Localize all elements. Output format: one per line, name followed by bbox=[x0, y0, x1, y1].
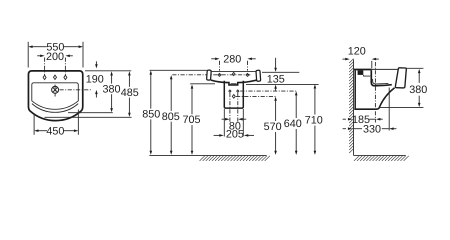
rim top thick bbox=[354, 69, 372, 71]
dim 570 bbox=[264, 97, 282, 155]
drain hole bbox=[52, 86, 59, 93]
dim 135 bbox=[262, 58, 299, 91]
dim 280 bbox=[211, 54, 255, 71]
centerline vertical bbox=[374, 62, 376, 123]
ext line 705 left bbox=[190, 83, 215, 85]
ext 330 right bbox=[388, 88, 390, 131]
svg-text:330: 330 bbox=[363, 123, 381, 135]
ext line 380 bottom bbox=[68, 112, 113, 114]
svg-text:190: 190 bbox=[86, 74, 104, 86]
bowl inner surface thin bbox=[373, 79, 389, 84]
svg-text:200: 200 bbox=[46, 51, 64, 63]
floor line right bbox=[354, 154, 406, 156]
dim 380 left view bbox=[102, 71, 120, 112]
svg-text:205: 205 bbox=[226, 128, 244, 140]
dim 705 bbox=[182, 84, 200, 154]
box fixing hole left bbox=[229, 90, 231, 92]
svg-text:120: 120 bbox=[348, 46, 366, 58]
svg-text:380: 380 bbox=[102, 83, 120, 95]
box hole extension right bbox=[237, 93, 239, 122]
dim 710 bbox=[305, 84, 323, 155]
svg-text:705: 705 bbox=[182, 114, 200, 126]
svg-text:380: 380 bbox=[409, 84, 427, 96]
floor hatch right bbox=[354, 156, 409, 161]
tap hole center bbox=[54, 75, 57, 79]
dim 185 bbox=[343, 114, 383, 126]
bar top edge bbox=[211, 71, 257, 73]
bracket hook line bbox=[364, 75, 371, 76]
ref line 570 bbox=[236, 95, 276, 97]
bar right end cap bbox=[256, 70, 261, 81]
dim 80 bbox=[222, 118, 247, 132]
bar left end cap bbox=[207, 70, 212, 80]
dim 190 bbox=[86, 61, 104, 97]
front fascia bbox=[395, 68, 406, 88]
svg-text:570: 570 bbox=[264, 121, 282, 133]
ref line 710 / 135 bottom ext bbox=[246, 83, 319, 85]
dim 805 bbox=[162, 75, 180, 155]
ext 380 top bbox=[406, 67, 424, 69]
dim 485 bbox=[121, 71, 139, 117]
ext 380 bottom bbox=[379, 107, 424, 109]
dim 120 bbox=[343, 46, 379, 69]
floor line middle bbox=[149, 154, 266, 156]
ext line 850 top bbox=[150, 69, 207, 71]
dim 380 right view bbox=[409, 69, 427, 107]
ext line top right of basin bbox=[85, 70, 131, 72]
box fixing hole right bbox=[237, 90, 239, 92]
svg-text:710: 710 bbox=[305, 115, 323, 127]
rim top thin continuation bbox=[372, 68, 398, 70]
svg-text:450: 450 bbox=[46, 125, 64, 137]
ref line 640 bbox=[240, 90, 296, 92]
ext line 485 bottom bbox=[45, 116, 132, 118]
center hole diamond bbox=[232, 72, 235, 75]
tap hole right bbox=[64, 75, 67, 79]
basin front edge arc bbox=[32, 104, 78, 113]
dim 850 bbox=[142, 70, 160, 154]
dim 200 bbox=[37, 51, 73, 75]
tap hole left bbox=[43, 75, 46, 79]
basin inner rim bbox=[32, 83, 79, 110]
fixing hole right bbox=[246, 73, 249, 76]
body back edge bbox=[354, 70, 356, 109]
box drain diamond bbox=[232, 95, 235, 99]
dim 640 bbox=[284, 91, 302, 155]
svg-text:135: 135 bbox=[267, 73, 285, 85]
svg-text:280: 280 bbox=[223, 54, 241, 66]
wall hatch bbox=[349, 59, 353, 153]
dim 450 bbox=[34, 110, 78, 138]
dim 205 bbox=[214, 109, 254, 140]
dim 330 bbox=[343, 123, 397, 135]
dim 550 bbox=[28, 41, 83, 67]
trap cover box bbox=[224, 81, 243, 108]
floor hatch middle bbox=[200, 156, 270, 161]
wall line bbox=[353, 59, 355, 155]
basin outer body bbox=[28, 71, 82, 121]
box hole extension left bbox=[229, 93, 231, 122]
svg-text:805: 805 bbox=[162, 111, 180, 123]
svg-text:485: 485 bbox=[121, 87, 139, 99]
bowl back and bottom thick bbox=[371, 70, 392, 86]
fixing hole left bbox=[218, 73, 221, 76]
svg-text:640: 640 bbox=[284, 118, 302, 130]
drain centerline bbox=[60, 89, 92, 91]
body bottom and front slant bbox=[354, 88, 394, 110]
overflow notch inner ledge bbox=[231, 82, 237, 84]
svg-text:850: 850 bbox=[142, 109, 160, 121]
bar underside with overflow notch bbox=[211, 80, 256, 85]
drain vertical centerline bbox=[54, 85, 56, 97]
mounting bracket (solid) bbox=[358, 70, 364, 75]
centerline through fixing holes (805 ref) bbox=[172, 74, 250, 76]
